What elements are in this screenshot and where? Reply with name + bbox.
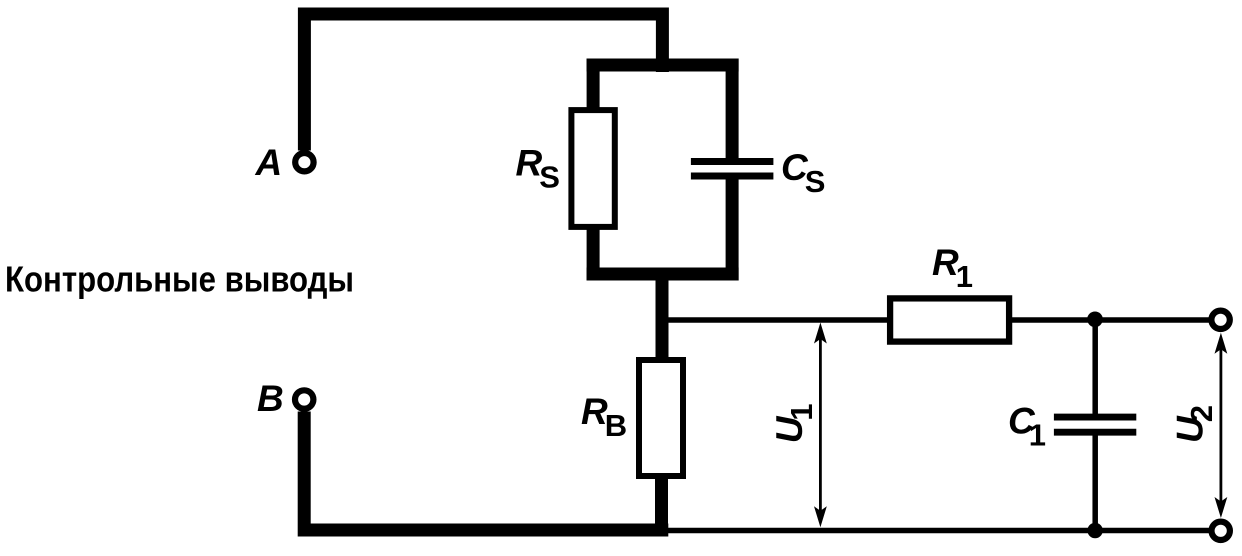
wire stub from box bottom to RB (656, 268, 669, 362)
svg-text:B: B (257, 378, 284, 419)
svg-text:Контрольные выводы: Контрольные выводы (5, 259, 354, 300)
wire box left lower segment (587, 226, 600, 281)
wire from terminal A up and across to parallel RC (304, 14, 662, 151)
arrow U1 (voltage across RB) (814, 323, 827, 528)
terminal B (295, 390, 313, 408)
wire C1 top lead (1092, 320, 1098, 415)
resistor RS body (571, 110, 614, 227)
output terminal top (1211, 311, 1229, 329)
wire R1 to output terminal (1009, 317, 1210, 323)
capacitor C1 plates (1054, 414, 1136, 421)
node junction dot bottom (1087, 523, 1102, 538)
resistor RB body (639, 360, 683, 476)
output terminal bottom (1212, 522, 1230, 540)
resistor R1 body (890, 298, 1009, 341)
terminal A (295, 153, 313, 171)
wire box right lower segment (726, 177, 739, 281)
node junction dot top (1087, 312, 1103, 328)
wire from terminal B down and across bottom (304, 412, 668, 531)
wire C1 bottom lead (1092, 433, 1098, 530)
arrow U2 (output voltage) (1215, 333, 1228, 518)
svg-text:A: A (255, 142, 283, 183)
wire bottom bus to output terminal (665, 528, 1210, 534)
capacitor CS plates (691, 158, 774, 165)
wire box left upper segment (587, 59, 600, 112)
wire parallel-box top (587, 59, 739, 72)
wire node to R1 (662, 317, 890, 323)
wire parallel-box bottom (587, 268, 739, 281)
wire box right upper segment (726, 59, 739, 161)
wire RB bottom stub (655, 475, 668, 530)
